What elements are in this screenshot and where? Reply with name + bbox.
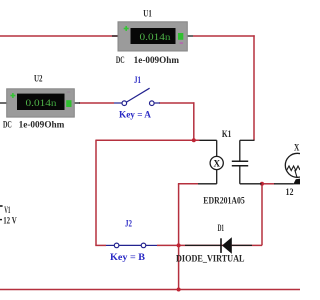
- svg-text:0.014n: 0.014n: [140, 32, 172, 42]
- svg-text:0.014n: 0.014n: [26, 98, 58, 108]
- svg-text:J1: J1: [134, 75, 141, 85]
- svg-text:DC: DC: [116, 55, 125, 65]
- svg-text:U2: U2: [34, 74, 43, 84]
- svg-text:EDR201A05: EDR201A05: [203, 195, 245, 205]
- svg-text:12 V: 12 V: [3, 216, 17, 226]
- svg-text:DC: DC: [3, 120, 12, 130]
- svg-text:DIODE_VIRTUAL: DIODE_VIRTUAL: [176, 254, 245, 264]
- svg-text:V1: V1: [4, 205, 10, 215]
- svg-text:Key = B: Key = B: [110, 252, 145, 262]
- svg-text:1e-009Ohm: 1e-009Ohm: [19, 120, 65, 130]
- svg-text:X: X: [213, 158, 220, 168]
- svg-text:Key = A: Key = A: [119, 110, 151, 120]
- svg-text:1e-009Ohm: 1e-009Ohm: [134, 55, 180, 65]
- svg-text:X1: X1: [294, 143, 300, 153]
- svg-text:J2: J2: [125, 219, 132, 229]
- svg-text:D1: D1: [218, 223, 225, 233]
- svg-text:12: 12: [286, 187, 294, 197]
- svg-text:K1: K1: [222, 129, 232, 139]
- svg-text:U1: U1: [143, 8, 152, 18]
